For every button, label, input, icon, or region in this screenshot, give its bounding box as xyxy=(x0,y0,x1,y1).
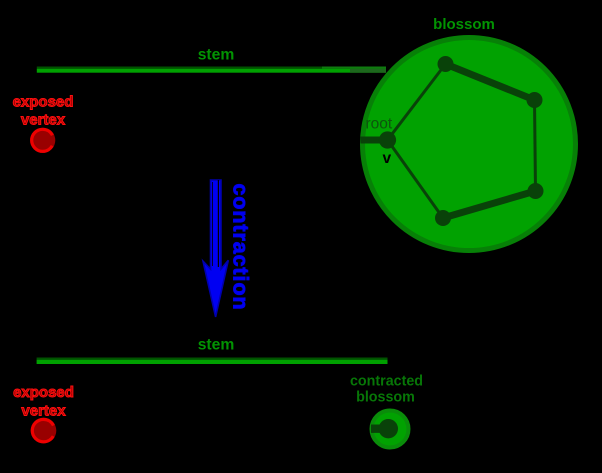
node right-top vertex dot xyxy=(527,92,543,108)
node exposed vertex (bottom red circle) xyxy=(31,418,57,444)
svg-text:contracted: contracted xyxy=(350,374,423,390)
svg-text:blossom: blossom xyxy=(433,16,495,33)
svg-text:vertex: vertex xyxy=(21,112,66,129)
node contracted blossom dot xyxy=(379,419,398,438)
wire arrow shaft seam xyxy=(217,180,219,267)
svg-text:exposed: exposed xyxy=(13,384,74,401)
wire pentagon edge top-righttop (thick matched) xyxy=(446,64,535,100)
wire pentagon edge bottom-root (thin) xyxy=(388,140,444,218)
wire top stem line xyxy=(37,67,386,73)
svg-text:contraction: contraction xyxy=(229,184,253,311)
wire stem stub to root xyxy=(361,137,388,144)
svg-text:root: root xyxy=(366,116,393,133)
svg-text:blossom: blossom xyxy=(356,390,415,406)
node bottom vertex dot xyxy=(435,210,451,226)
arrow contraction (blue) xyxy=(203,180,228,317)
node exposed vertex (top red circle) xyxy=(30,128,55,153)
wire pentagon edge root-top (thin) xyxy=(388,64,446,140)
node label: exposed vertex (top) xyxy=(13,94,74,129)
node label: contracted blossom xyxy=(350,374,423,406)
wire bottom stem line xyxy=(37,358,388,365)
svg-text:stem: stem xyxy=(198,337,235,354)
wire pentagon edge rightbottom-bottom (thick matched) xyxy=(443,191,536,218)
blossom circle B1 xyxy=(363,38,576,251)
node contracted blossom circle xyxy=(371,411,409,448)
svg-text:v: v xyxy=(383,150,392,167)
node top vertex dot xyxy=(438,56,454,72)
node right-bottom vertex dot xyxy=(528,183,544,199)
wire contracted stem stub xyxy=(371,425,388,433)
wire pentagon edge righttop-rightbottom (thin) xyxy=(535,100,536,191)
svg-text:stem: stem xyxy=(198,47,235,64)
svg-text:exposed: exposed xyxy=(13,94,74,111)
node root vertex dot xyxy=(379,131,396,148)
svg-text:vertex: vertex xyxy=(21,403,66,420)
node label: exposed vertex (bottom) xyxy=(13,384,74,420)
wire arrow shaft seam 2 xyxy=(212,182,214,266)
